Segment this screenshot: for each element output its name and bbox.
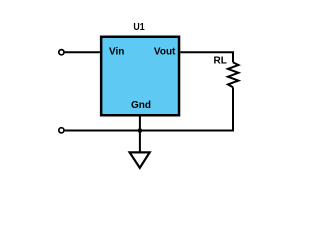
wire Gnd pin down to ground (139, 117, 141, 153)
input terminal circle (59, 50, 64, 55)
svg-text:Vout: Vout (154, 47, 176, 58)
ground symbol triangle (130, 152, 150, 168)
wire input terminal to Vin (64, 51, 100, 53)
svg-text:U1: U1 (133, 22, 145, 33)
wire bottom rail to output terminal (64, 130, 233, 132)
junction dot (138, 128, 143, 133)
svg-text:Gnd: Gnd (131, 100, 151, 111)
svg-text:Vin: Vin (109, 47, 124, 58)
resistor RL (228, 62, 239, 87)
svg-text:RL: RL (214, 56, 227, 67)
wire Vout to resistor RL top (180, 52, 233, 62)
bottom terminal circle (59, 128, 64, 133)
wire resistor RL bottom down to bottom rail (232, 87, 234, 131)
regulator U1 body (101, 37, 179, 116)
